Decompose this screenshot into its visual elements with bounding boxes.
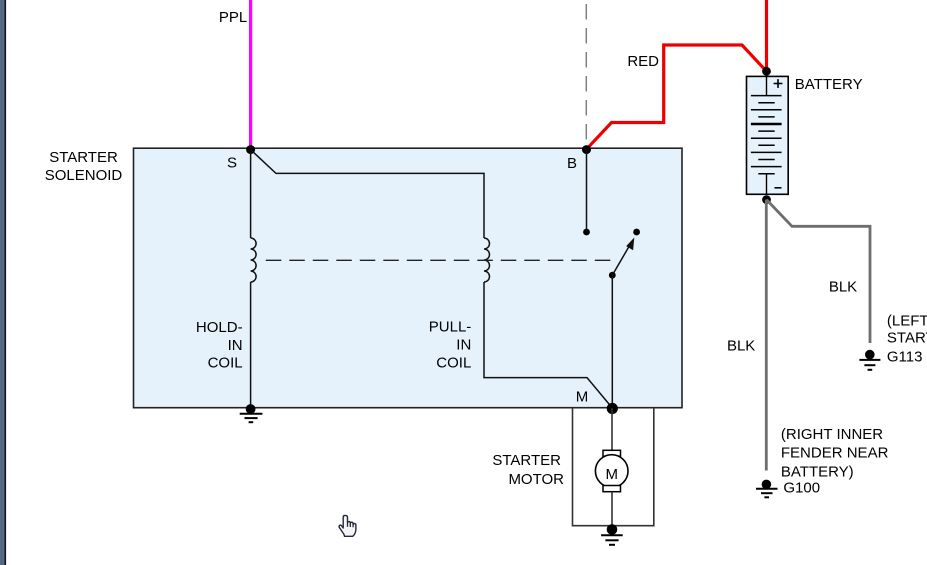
battery — [747, 76, 789, 194]
wire hold-in coil to ground — [250, 282, 252, 408]
svg-text:STARTER: STARTER — [492, 452, 561, 469]
wire S to hold-in coil — [250, 150, 252, 238]
svg-text:G100: G100 — [783, 479, 820, 496]
svg-text:S: S — [227, 155, 237, 172]
label HOLD-IN COIL — [196, 319, 243, 372]
switch contact B — [583, 229, 590, 236]
dashed link coil to switch — [266, 259, 612, 261]
svg-text:IN: IN — [456, 337, 471, 354]
starter solenoid box — [134, 148, 683, 408]
window left border stripe — [0, 0, 6, 565]
wire switch to M — [611, 275, 613, 408]
inductor hold-in coil — [251, 238, 257, 282]
svg-text:MOTOR: MOTOR — [508, 471, 564, 488]
wire PPL (purple) — [249, 0, 252, 149]
svg-text:B: B — [567, 155, 577, 172]
dashed wire to terminal B — [585, 4, 587, 148]
switch pivot — [609, 272, 616, 279]
switch contact M side — [633, 229, 640, 236]
wire BLK battery to G100 — [765, 200, 768, 471]
svg-text:BATTERY): BATTERY) — [781, 464, 854, 481]
label STARTER SOLENOID — [45, 149, 123, 184]
svg-text:FENDER NEAR: FENDER NEAR — [781, 445, 889, 462]
svg-text:G113: G113 — [887, 349, 923, 366]
wire S to pull-in coil — [251, 150, 484, 238]
cursor hand pointer — [339, 515, 356, 536]
svg-text:(LEFT SIDE: (LEFT SIDE — [887, 313, 927, 330]
svg-text:SOLENOID: SOLENOID — [45, 167, 123, 184]
label STARTER MOTOR — [492, 452, 564, 488]
ground G113 — [859, 350, 880, 370]
svg-text:STARTER: STARTER — [49, 149, 118, 166]
svg-text:M: M — [576, 388, 589, 405]
junction battery positive — [762, 67, 771, 76]
svg-text:COIL: COIL — [436, 355, 471, 372]
svg-text:BLK: BLK — [829, 279, 857, 296]
junction B — [582, 145, 591, 154]
inductor pull-in coil — [484, 238, 490, 282]
label (RIGHT INNER FENDER NEAR BATTERY) — [781, 426, 889, 481]
junction M — [607, 403, 618, 414]
ground G100 — [756, 480, 778, 498]
svg-text:HOLD-: HOLD- — [196, 319, 243, 336]
label (LEFT SIDE ... STARTER) clipped — [887, 313, 927, 347]
svg-text:STARTER): STARTER) — [887, 330, 927, 347]
ground solenoid case — [240, 404, 263, 422]
wire RED to solenoid terminal B — [587, 45, 767, 149]
wire BLK battery to G113 — [767, 200, 871, 343]
svg-text:M: M — [605, 466, 618, 483]
svg-text:RED: RED — [627, 53, 659, 70]
motor M1 — [595, 408, 628, 527]
svg-text:COIL: COIL — [208, 355, 243, 372]
ground starter motor — [601, 524, 623, 545]
wire RED battery feed from top — [765, 0, 768, 71]
svg-text:PPL: PPL — [219, 9, 247, 26]
switch arm with arrowhead — [612, 238, 634, 276]
svg-text:BLK: BLK — [727, 338, 755, 355]
label PULL-IN COIL — [429, 319, 472, 372]
svg-text:(RIGHT INNER: (RIGHT INNER — [781, 426, 883, 443]
starter motor enclosure — [573, 408, 654, 526]
svg-text:PULL-: PULL- — [429, 319, 472, 336]
svg-text:BATTERY: BATTERY — [795, 76, 863, 93]
svg-text:IN: IN — [228, 337, 243, 354]
wire pull-in coil to M — [484, 282, 612, 408]
junction S — [246, 145, 255, 154]
wire B to switch contact — [586, 150, 588, 232]
junction battery negative — [762, 195, 771, 204]
